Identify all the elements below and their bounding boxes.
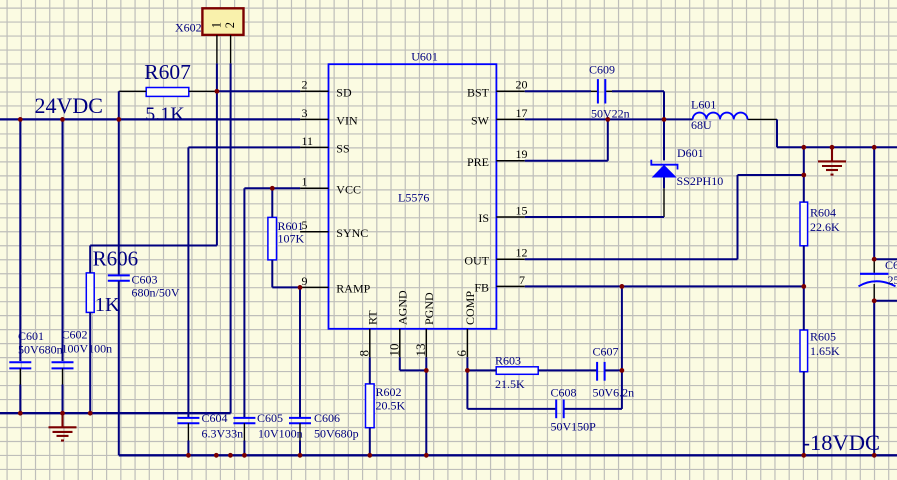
svg-text:100V100n: 100V100n xyxy=(62,342,113,356)
svg-text:U601: U601 xyxy=(411,49,438,63)
svg-text:1: 1 xyxy=(210,22,224,28)
svg-text:1K: 1K xyxy=(95,294,120,316)
svg-text:R605: R605 xyxy=(810,330,836,344)
svg-text:IS: IS xyxy=(478,211,489,225)
svg-text:25V100u: 25V100u xyxy=(888,273,897,287)
svg-text:2: 2 xyxy=(223,22,237,28)
svg-text:50V22n: 50V22n xyxy=(591,106,630,120)
svg-text:OUT: OUT xyxy=(464,254,489,268)
svg-text:3: 3 xyxy=(302,106,308,120)
svg-text:C609: C609 xyxy=(589,62,615,76)
svg-text:1: 1 xyxy=(302,175,308,189)
svg-text:50V150P: 50V150P xyxy=(551,420,597,434)
svg-text:C607: C607 xyxy=(593,345,619,359)
svg-text:6: 6 xyxy=(454,350,469,357)
svg-text:PRE: PRE xyxy=(467,155,489,169)
svg-text:L601: L601 xyxy=(691,97,716,111)
svg-text:D601: D601 xyxy=(677,146,704,160)
svg-text:VIN: VIN xyxy=(336,114,358,128)
svg-text:-18VDC: -18VDC xyxy=(803,430,881,455)
svg-text:C608: C608 xyxy=(551,386,577,400)
svg-text:AGND: AGND xyxy=(395,290,409,325)
svg-text:X602: X602 xyxy=(175,20,202,34)
svg-text:50V680p: 50V680p xyxy=(314,427,359,441)
svg-text:SW: SW xyxy=(471,114,490,128)
svg-text:6.3V33n: 6.3V33n xyxy=(202,427,244,441)
svg-text:68U: 68U xyxy=(691,118,712,132)
svg-text:50V680n: 50V680n xyxy=(18,342,63,356)
svg-text:C610: C610 xyxy=(885,258,897,272)
svg-text:C601: C601 xyxy=(18,329,44,343)
svg-text:SD: SD xyxy=(336,86,352,100)
svg-text:20: 20 xyxy=(516,78,528,92)
svg-text:12: 12 xyxy=(516,246,528,260)
svg-text:680n/50V: 680n/50V xyxy=(132,286,180,300)
svg-text:107K: 107K xyxy=(278,232,305,246)
svg-text:R603: R603 xyxy=(495,353,521,367)
svg-text:C606: C606 xyxy=(314,411,340,425)
svg-text:5.1K: 5.1K xyxy=(145,104,185,126)
svg-text:1.65K: 1.65K xyxy=(810,344,840,358)
svg-text:C603: C603 xyxy=(132,273,158,287)
svg-text:2: 2 xyxy=(302,78,308,92)
svg-text:C605: C605 xyxy=(257,411,283,425)
svg-text:50V6.2n: 50V6.2n xyxy=(593,386,635,400)
svg-text:10: 10 xyxy=(386,344,401,357)
svg-text:17: 17 xyxy=(516,106,528,120)
svg-text:R602: R602 xyxy=(376,385,402,399)
svg-text:15: 15 xyxy=(516,203,528,217)
svg-text:22.6K: 22.6K xyxy=(810,220,840,234)
svg-text:VCC: VCC xyxy=(336,183,361,197)
svg-text:24VDC: 24VDC xyxy=(35,93,103,118)
svg-text:SYNC: SYNC xyxy=(336,226,368,240)
svg-text:R606: R606 xyxy=(93,246,139,270)
svg-text:SS: SS xyxy=(336,142,349,156)
svg-text:R607: R607 xyxy=(144,60,191,84)
svg-text:BST: BST xyxy=(467,86,490,100)
svg-text:8: 8 xyxy=(356,350,371,357)
svg-text:13: 13 xyxy=(413,344,428,357)
svg-text:19: 19 xyxy=(516,147,528,161)
svg-text:7: 7 xyxy=(519,273,525,287)
svg-text:RAMP: RAMP xyxy=(336,282,370,296)
svg-text:R604: R604 xyxy=(810,206,836,220)
svg-text:COMP: COMP xyxy=(463,291,477,325)
svg-text:C602: C602 xyxy=(62,328,88,342)
svg-text:11: 11 xyxy=(302,134,314,148)
svg-text:10V100n: 10V100n xyxy=(258,427,303,441)
svg-text:21.5K: 21.5K xyxy=(495,377,525,391)
svg-text:PGND: PGND xyxy=(422,292,436,325)
svg-text:C604: C604 xyxy=(202,411,228,425)
svg-text:20.5K: 20.5K xyxy=(376,399,406,413)
svg-text:L5576: L5576 xyxy=(398,190,429,204)
svg-text:SS2PH10: SS2PH10 xyxy=(677,174,724,188)
svg-text:9: 9 xyxy=(302,274,308,288)
svg-text:RT: RT xyxy=(365,310,379,325)
